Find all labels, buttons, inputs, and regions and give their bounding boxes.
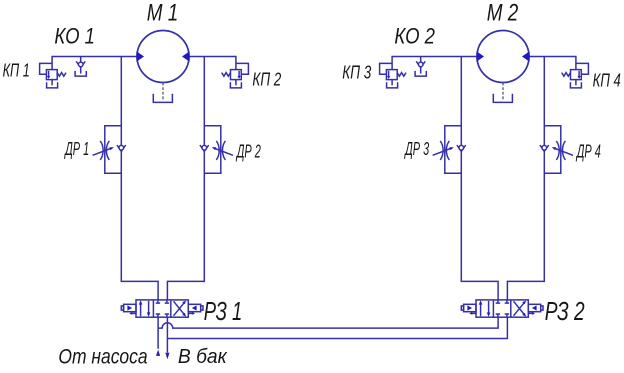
- svg-text:КО 1: КО 1: [54, 24, 95, 49]
- svg-text:КО 2: КО 2: [394, 24, 435, 49]
- svg-text:КП 3: КП 3: [342, 63, 371, 83]
- svg-text:РЗ 1: РЗ 1: [204, 298, 243, 326]
- svg-text:ДР 3: ДР 3: [404, 138, 430, 159]
- svg-text:От насоса: От насоса: [58, 346, 147, 369]
- svg-text:КП 1: КП 1: [3, 61, 30, 81]
- svg-text:М 1: М 1: [147, 0, 179, 26]
- svg-text:ДР 1: ДР 1: [64, 138, 89, 159]
- svg-text:КП 4: КП 4: [593, 71, 621, 91]
- svg-text:ДР 4: ДР 4: [576, 141, 601, 162]
- svg-text:КП 2: КП 2: [252, 70, 281, 90]
- svg-text:ДР 2: ДР 2: [236, 141, 262, 162]
- svg-text:В бак: В бак: [178, 345, 228, 368]
- svg-text:М 2: М 2: [487, 0, 519, 26]
- svg-text:РЗ 2: РЗ 2: [545, 298, 585, 326]
